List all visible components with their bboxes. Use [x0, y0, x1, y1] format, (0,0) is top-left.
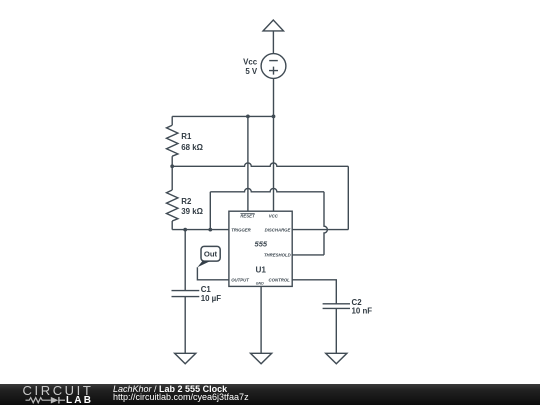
wire R2 bottom stub	[171, 221, 173, 230]
out flag	[197, 246, 220, 267]
wire C1 to ground	[184, 297, 186, 354]
capacitor C1	[172, 291, 200, 297]
capacitor C2	[323, 304, 350, 309]
wire node B horizontal with hops	[210, 188, 324, 191]
svg-text:39 kΩ: 39 kΩ	[181, 207, 203, 216]
node dot B/trigger	[208, 228, 212, 232]
wire R1 bottom stub	[171, 156, 173, 166]
pin overline RESET	[240, 213, 254, 215]
node dot vcc/top	[272, 115, 276, 119]
svg-text:THRESHOLD: THRESHOLD	[264, 253, 291, 258]
svg-text:Vcc: Vcc	[243, 58, 258, 67]
svg-text:R2: R2	[181, 197, 192, 206]
op 555 IC body U1	[229, 211, 292, 286]
svg-text:R1: R1	[181, 132, 192, 141]
wire C2 to ground	[335, 308, 337, 353]
svg-text:OUTPUT: OUTPUT	[231, 278, 249, 283]
wire node A horizontal with hops	[172, 163, 348, 166]
wire vcc pin vertical	[273, 116, 275, 211]
ground symbol right	[326, 353, 347, 364]
svg-text:10 µF: 10 µF	[201, 294, 222, 303]
ground symbol left	[175, 353, 196, 364]
wire trigger horizontal	[172, 229, 229, 231]
wire R1 top stub	[171, 116, 173, 125]
wire arrow to source	[272, 31, 274, 54]
node dot C1/trigger	[183, 228, 187, 232]
wire discharge horizontal	[292, 229, 348, 231]
wire reset vertical	[247, 116, 249, 211]
resistor R1	[167, 125, 178, 156]
svg-text:DISCHARGE: DISCHARGE	[265, 227, 291, 232]
svg-text:C1: C1	[201, 285, 212, 294]
svg-text:VCC: VCC	[269, 214, 279, 219]
wire top horizontal	[172, 115, 273, 117]
wire R2 top stub	[171, 166, 173, 190]
wire source to rail	[273, 78, 275, 116]
resistor R2	[167, 190, 178, 221]
footer bar	[0, 384, 540, 405]
svg-text:10 nF: 10 nF	[352, 307, 373, 316]
wire output horizontal	[197, 267, 229, 280]
svg-text:Out: Out	[204, 250, 218, 259]
svg-text:CONTROL: CONTROL	[269, 278, 291, 283]
svg-text:TRIGGER: TRIGGER	[231, 227, 251, 232]
wire threshold horizontal	[292, 254, 324, 256]
svg-text:U1: U1	[255, 266, 266, 275]
node dot A	[170, 164, 174, 168]
footer title text	[113, 385, 249, 402]
svg-text:68 kΩ: 68 kΩ	[181, 143, 203, 152]
vcc power arrow	[263, 20, 283, 31]
voltage source V1	[261, 54, 286, 79]
svg-text:LAB: LAB	[66, 395, 93, 405]
ground symbol middle	[251, 353, 272, 364]
svg-text:555: 555	[255, 240, 268, 249]
wire node A right vertical	[347, 166, 349, 229]
wire node B vertical left	[209, 192, 211, 230]
wire control horizontal	[292, 280, 336, 304]
circuitlab logo	[22, 385, 100, 405]
svg-text:RESET: RESET	[240, 214, 255, 219]
node dot reset/top	[246, 115, 250, 119]
svg-text:5 V: 5 V	[245, 67, 258, 76]
wire threshold vertical with hop	[324, 192, 327, 255]
wire gnd pin vertical	[260, 286, 262, 353]
wire C1 top	[184, 230, 186, 291]
svg-text:GND: GND	[256, 281, 264, 285]
